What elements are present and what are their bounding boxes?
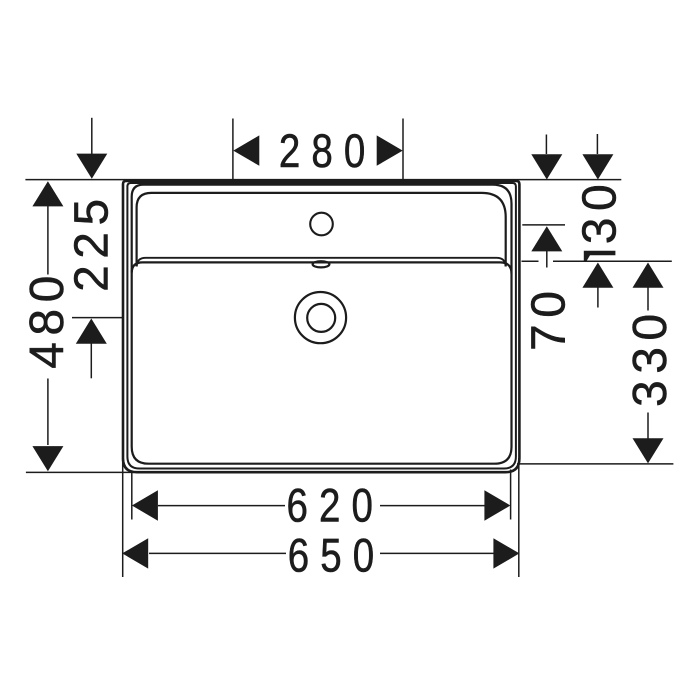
svg-text:330: 330 [624, 307, 677, 407]
svg-text:70: 70 [522, 285, 575, 351]
svg-text:650: 650 [288, 530, 386, 582]
svg-text:30: 30 [573, 178, 626, 244]
svg-text:480: 480 [21, 269, 74, 369]
svg-text:620: 620 [286, 480, 384, 532]
svg-text:280: 280 [279, 126, 377, 178]
